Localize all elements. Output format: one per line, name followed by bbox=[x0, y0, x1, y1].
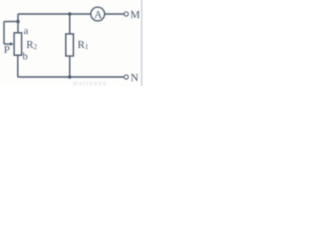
svg-text:A: A bbox=[94, 9, 102, 21]
svg-text:M: M bbox=[130, 9, 140, 21]
svg-text:N: N bbox=[131, 72, 139, 84]
svg-text:a: a bbox=[24, 26, 29, 37]
svg-text:P: P bbox=[4, 44, 10, 56]
svg-text:b: b bbox=[23, 52, 28, 63]
svg-text:m a t t e n u n: m a t t e n u n bbox=[73, 81, 106, 86]
svg-text:R2: R2 bbox=[26, 39, 37, 51]
svg-text:R1: R1 bbox=[78, 39, 89, 51]
